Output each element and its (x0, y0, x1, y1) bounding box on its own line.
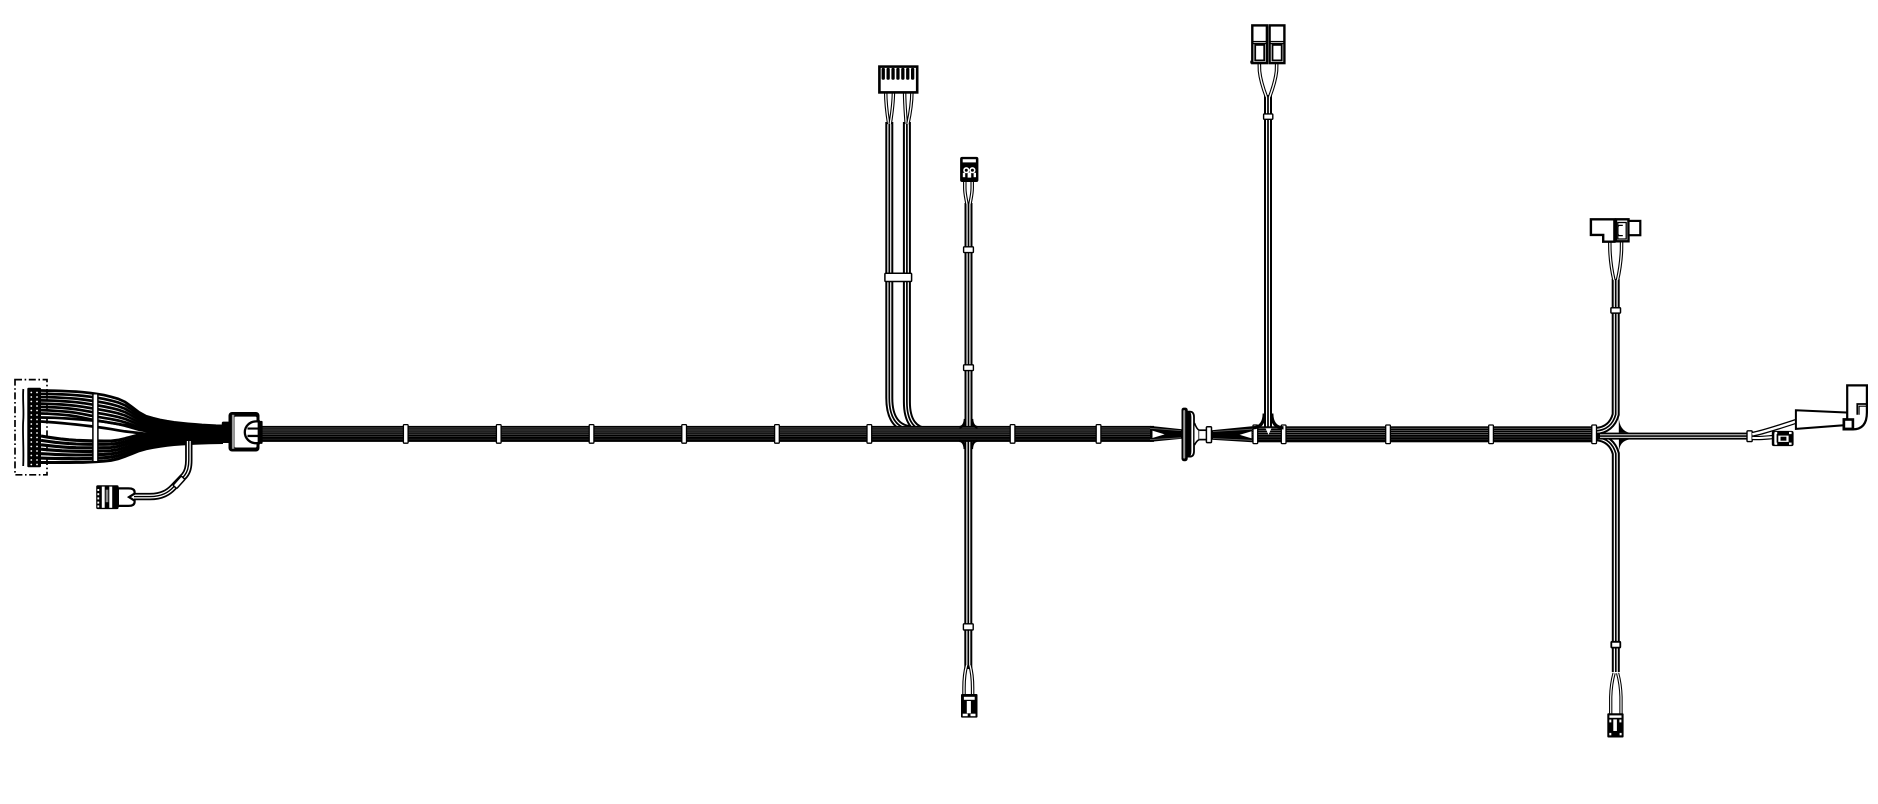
connector J1 pin dots column A (30, 392, 32, 466)
connector J5 lead wires (964, 665, 973, 695)
cable tie marks on right trunk (1253, 425, 1597, 444)
branch cable W3a riser (889, 122, 912, 430)
connector J6 lower cavity (1255, 45, 1264, 61)
cable tie T3 across W3a W3b (885, 273, 912, 281)
expansion hairlines (1213, 429, 1252, 440)
taper wedge gap (1153, 430, 1167, 438)
cable tie T4a on W4 (964, 247, 974, 253)
wire W10 to connector J11 (1752, 435, 1772, 440)
connector J8 inner latch (1618, 225, 1623, 235)
connector J3 comb teeth (882, 68, 915, 80)
branch cable W7 riser (1596, 279, 1616, 431)
connector J10 step notch (1857, 404, 1867, 415)
main trunk right section (1252, 426, 1597, 442)
wire fan upper group (41, 391, 223, 434)
connector J8 right body (1616, 219, 1629, 241)
connector J6 lead wires (1259, 63, 1276, 98)
connector J6 body (1252, 25, 1267, 63)
junction fork notch at W6 (1266, 428, 1272, 434)
wire fan middle pair (41, 418, 223, 437)
main trunk left section (228, 426, 1154, 442)
connector J1 pin dots column B (36, 392, 38, 466)
thin trunk continuation (1597, 433, 1748, 440)
connector J8 right body inner (1618, 223, 1626, 240)
connector J2 terminal holder (118, 488, 135, 506)
cable tie T2 on branch wire (173, 476, 185, 489)
junction fork left arm at W6 (1253, 414, 1265, 428)
branch cable W6 riser (1264, 95, 1272, 428)
connector J10 lock square (1844, 420, 1853, 429)
trunk left section wire separation lines (240, 428, 1153, 439)
connector J4 lower slots (963, 173, 965, 177)
cable tie T9 on W8 (1611, 642, 1620, 648)
harness clamp C1 bundle eye (245, 421, 259, 443)
connector J9 top slot (1609, 715, 1621, 717)
cable tie T5 on W5 (963, 624, 973, 630)
cable tie T10 at right end (1747, 431, 1752, 442)
connector J4 keyhole right (969, 167, 975, 173)
trunk right section wire separation lines (1252, 428, 1596, 439)
connector J9 lead wires (1611, 673, 1621, 714)
connector J7 divider (1270, 41, 1285, 43)
cable tie T7 on W6 (1264, 114, 1273, 119)
harness clamp C1 inner face (235, 417, 257, 448)
harness clamp C1 right bar (259, 421, 263, 444)
connector J8 lead wires (1610, 238, 1622, 280)
cable tie T6 after grommet (1206, 427, 1211, 443)
connector J11 corner dots (1775, 432, 1778, 434)
junction fillet left below W5 (959, 441, 965, 449)
connector J9 dots (1609, 720, 1611, 723)
connector J6 divider (1252, 41, 1267, 43)
harness clamp C1 outer frame (229, 412, 260, 452)
connector J2 white stripe 2 (109, 487, 112, 508)
cable tie T4b on W4 (964, 365, 974, 371)
connector J11 center window (1778, 436, 1788, 442)
W8 right-side fillet (1619, 439, 1630, 452)
connector J7 body (1270, 25, 1285, 63)
branch cable W3b riser (907, 122, 928, 432)
connector J7 lower cavity (1273, 45, 1282, 61)
thin trunk hairlines (1600, 435, 1747, 438)
grommet G1 neck (1199, 430, 1206, 439)
connector J2 left tick marks (97, 489, 99, 507)
connector J4 body (960, 157, 978, 182)
connector J6 foot (1250, 61, 1253, 64)
connector J8 right flag (1629, 221, 1641, 235)
harness clamp C1 gray edge stripe (232, 415, 234, 449)
branch wire W2 to connector J2 (134, 439, 189, 497)
connector J9 center slot (1613, 719, 1617, 731)
branch cable W8 dropper (1596, 437, 1616, 672)
branch cable W4 upper run (965, 203, 973, 434)
taper hairlines (1150, 428, 1181, 439)
connector J1 pin header (27, 388, 41, 468)
connector J10 wedge body (1796, 410, 1849, 429)
grommet G1 front disc (1182, 408, 1188, 462)
harness clamp C1 collar (222, 422, 232, 443)
connector J2 white stripe 1 (102, 487, 105, 508)
cable tie marks on left trunk (403, 425, 1100, 444)
junction fillet left of W4 (960, 419, 966, 427)
W7 right-side fillet (1619, 417, 1630, 433)
connector J10 flag housing (1844, 385, 1867, 429)
junction fork right arm at W6 (1272, 414, 1284, 428)
connector J2 body (96, 485, 118, 509)
cable tie T8 on W7 (1611, 308, 1621, 313)
connector J4 keyhole left (963, 167, 969, 173)
trunk taper into grommet (1150, 426, 1182, 442)
connector J3 body (879, 67, 917, 93)
connector J8 left flag body (1591, 219, 1615, 241)
connector J4 top slot (963, 159, 976, 162)
junction fillet right below W5 (972, 441, 978, 449)
grommet G1 rear flange (1188, 412, 1194, 457)
branch cable W5 lower run (964, 434, 972, 669)
wire W9 to connector J10 (1752, 421, 1796, 434)
connector J2 gray stripe (106, 490, 109, 503)
connector J1 dashed housing outline (15, 380, 47, 475)
connector J11 left slot (1774, 433, 1776, 444)
grommet G1 funnel (1195, 423, 1200, 445)
connector J3 lead wires (886, 92, 912, 124)
expansion wedge gap (1238, 431, 1252, 439)
trunk expansion after grommet (1212, 426, 1253, 442)
connector J5 body (961, 694, 978, 718)
connector J5 center slot (967, 701, 971, 713)
harness clamp C1 crossing wires (248, 428, 263, 430)
connector J11 body (1772, 431, 1794, 446)
connector J5 top slot (964, 697, 975, 700)
connector J9 body (1607, 713, 1623, 737)
wire fan lower group (41, 432, 223, 462)
connector J4 lead wires (965, 181, 972, 204)
junction fillet right of W4 (972, 419, 978, 427)
connector J1 inner seam line (22, 389, 25, 466)
cable tie T1 on fan (93, 394, 98, 462)
connector J5 bottom dots (963, 714, 968, 717)
